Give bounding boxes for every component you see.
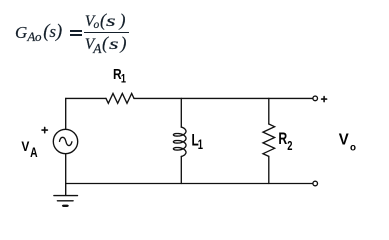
equation denominator VA(s)	[85, 34, 127, 56]
wire: R2 top stub	[268, 98, 270, 124]
ground	[54, 184, 78, 206]
equation term G_Ao	[15, 24, 27, 41]
wire: left vertical from source to bottom wire	[65, 154, 67, 184]
terminal circle top right	[313, 96, 318, 101]
resistor R2	[263, 124, 275, 156]
svg-text:o: o	[350, 142, 356, 153]
wire: top wire from corner to R1	[66, 97, 106, 99]
wire: L1 bottom stub	[180, 156, 182, 183]
wire: bottom wire	[66, 183, 313, 185]
svg-text:1: 1	[121, 74, 126, 86]
plus sign at source	[42, 127, 47, 132]
wire: left vertical from top-left corner down to source	[65, 98, 67, 129]
inductor L1	[173, 127, 186, 156]
terminal circle bottom right	[313, 181, 318, 186]
svg-text:V: V	[339, 131, 349, 148]
plus sign at output	[322, 97, 327, 102]
sine wave inside source	[60, 137, 72, 145]
svg-text:2: 2	[287, 140, 292, 154]
voltage source VA	[53, 129, 77, 153]
svg-text:V: V	[21, 138, 29, 154]
svg-text:A: A	[30, 144, 38, 160]
equation equals sign	[70, 30, 82, 32]
resistor R1	[106, 94, 134, 104]
wire: top wire from R1 to top terminal	[134, 97, 313, 99]
svg-text:1: 1	[198, 137, 204, 152]
wire: R2 bottom stub	[268, 156, 270, 183]
wire: L1 top stub	[180, 98, 182, 127]
equation numerator Vo(s)	[85, 11, 126, 31]
equation fraction bar	[84, 32, 128, 33]
equation term (s)	[43, 23, 62, 42]
svg-text:R: R	[278, 130, 287, 148]
